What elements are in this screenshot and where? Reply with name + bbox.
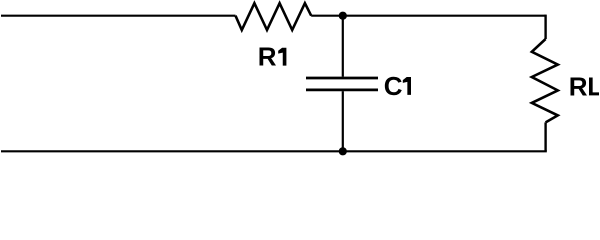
- wire capacitor bottom lead: [342, 91, 344, 151]
- svg-text:R: R: [258, 42, 277, 72]
- wire right vertical top: [544, 15, 546, 39]
- label C1: [384, 71, 411, 101]
- capacitor C1 top plate: [306, 77, 378, 80]
- resistor R1: [236, 3, 312, 30]
- wire top-left horizontal: [1, 15, 236, 17]
- resistor RL: [532, 39, 558, 122]
- node top junction dot: [339, 12, 347, 20]
- wire top-right horizontal: [311, 15, 545, 17]
- svg-text:R: R: [569, 71, 588, 101]
- wire capacitor top lead: [342, 16, 344, 77]
- node bottom junction dot: [339, 147, 347, 155]
- wire right vertical bottom: [544, 122, 546, 151]
- label RL: [569, 71, 599, 101]
- label R1: [258, 42, 287, 72]
- svg-text:C: C: [384, 71, 403, 101]
- capacitor C1 bottom plate: [306, 89, 378, 92]
- wire bottom horizontal: [1, 150, 547, 152]
